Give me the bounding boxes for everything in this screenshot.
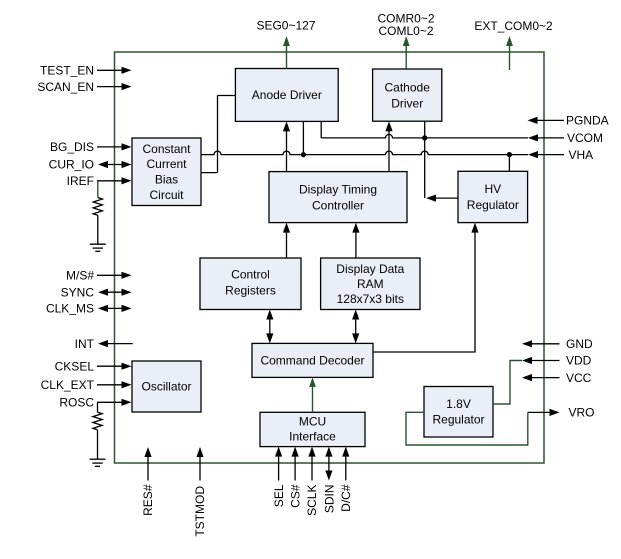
svg-text:Cathode: Cathode <box>385 81 431 95</box>
svg-text:HV: HV <box>484 182 501 196</box>
svg-text:COML0~2: COML0~2 <box>378 24 433 38</box>
svg-text:BG_DIS: BG_DIS <box>50 140 94 154</box>
svg-text:Control: Control <box>231 268 270 282</box>
svg-text:CS#: CS# <box>288 484 302 508</box>
svg-text:Display Timing: Display Timing <box>299 182 377 196</box>
svg-text:VHA: VHA <box>569 148 594 162</box>
svg-text:MCU: MCU <box>299 414 326 428</box>
svg-text:GND: GND <box>566 337 593 351</box>
svg-text:CLK_MS: CLK_MS <box>46 302 94 316</box>
svg-text:TEST_EN: TEST_EN <box>40 64 94 78</box>
svg-text:VDD: VDD <box>566 354 592 368</box>
svg-text:Bias: Bias <box>155 173 178 187</box>
svg-text:Driver: Driver <box>391 97 423 111</box>
svg-text:RAM: RAM <box>357 277 384 291</box>
svg-text:TSTMOD: TSTMOD <box>193 486 207 537</box>
svg-text:IREF: IREF <box>67 174 94 188</box>
svg-text:ROSC: ROSC <box>59 396 94 410</box>
svg-text:Circuit: Circuit <box>149 188 184 202</box>
svg-text:Controller: Controller <box>312 198 364 212</box>
svg-text:M/S#: M/S# <box>66 269 94 283</box>
svg-text:Interface: Interface <box>289 429 336 443</box>
svg-text:Registers: Registers <box>225 284 276 298</box>
svg-text:1.8V: 1.8V <box>446 397 471 411</box>
svg-text:SYNC: SYNC <box>61 285 95 299</box>
svg-text:Regulator: Regulator <box>432 413 484 427</box>
svg-text:INT: INT <box>75 337 95 351</box>
svg-text:SEG0~127: SEG0~127 <box>256 19 315 33</box>
svg-text:VRO: VRO <box>569 406 595 420</box>
svg-text:CUR_IO: CUR_IO <box>49 158 94 172</box>
svg-text:D/C#: D/C# <box>339 484 353 512</box>
svg-text:VCC: VCC <box>566 371 592 385</box>
svg-text:Command Decoder: Command Decoder <box>260 354 364 368</box>
svg-text:Display Data: Display Data <box>336 262 404 276</box>
svg-text:VCOM: VCOM <box>567 131 603 145</box>
svg-text:PGNDA: PGNDA <box>566 114 609 128</box>
svg-text:RES#: RES# <box>141 484 155 516</box>
svg-text:Regulator: Regulator <box>467 198 519 212</box>
svg-text:Constant: Constant <box>142 142 191 156</box>
svg-text:SCAN_EN: SCAN_EN <box>37 80 94 94</box>
svg-text:SEL: SEL <box>272 484 286 507</box>
svg-text:CLK_EXT: CLK_EXT <box>41 378 95 392</box>
svg-text:Oscillator: Oscillator <box>141 380 191 394</box>
svg-text:CKSEL: CKSEL <box>55 359 95 373</box>
svg-text:Current: Current <box>146 157 187 171</box>
svg-text:128x7x3 bits: 128x7x3 bits <box>337 292 404 306</box>
svg-text:Anode Driver: Anode Driver <box>252 88 322 102</box>
svg-text:EXT_COM0~2: EXT_COM0~2 <box>474 19 553 33</box>
svg-text:SCLK: SCLK <box>305 485 319 516</box>
svg-text:SDIN: SDIN <box>323 485 337 514</box>
